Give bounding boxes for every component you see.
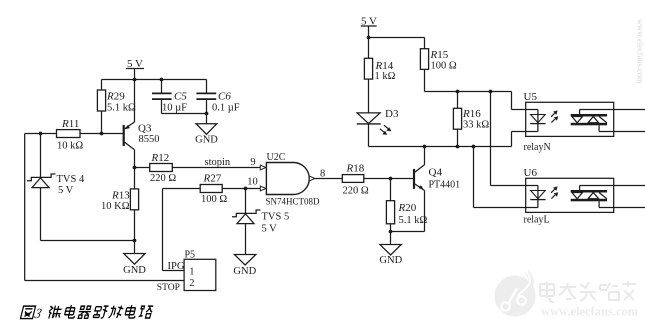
svg-text:10 KΩ: 10 KΩ (101, 201, 130, 212)
ground under C6 (196, 114, 217, 135)
label R16 value (462, 108, 489, 131)
svg-text:C6: C6 (218, 91, 231, 103)
svg-text:5.1 kΩ: 5.1 kΩ (107, 102, 136, 113)
junction node B / Q4 collector (423, 145, 427, 149)
svg-text:220 Ω: 220 Ω (343, 185, 369, 196)
label R20 value (398, 202, 428, 226)
wire node B rail (369, 146, 512, 148)
label R29 value (106, 91, 136, 114)
label R14 value (375, 60, 396, 82)
svg-text:R18: R18 (346, 162, 365, 174)
svg-text:9: 9 (250, 157, 255, 168)
svg-text:stopin: stopin (205, 157, 231, 168)
label Q4 PT4401 (429, 166, 461, 190)
wire Q3 base net (25, 133, 57, 135)
svg-text:R27: R27 (203, 173, 222, 185)
svg-text:33 kΩ: 33 kΩ (463, 120, 489, 131)
svg-text:GND: GND (379, 255, 402, 266)
svg-text:1: 1 (189, 266, 194, 277)
svg-text:C5: C5 (174, 91, 187, 103)
svg-text:GND: GND (123, 265, 146, 276)
svg-text:U6: U6 (524, 167, 538, 179)
svg-text:GND: GND (195, 134, 218, 145)
resistor R18 (315, 175, 414, 183)
svg-text:10 µF: 10 µF (162, 102, 187, 113)
svg-text:220 Ω: 220 Ω (150, 173, 176, 184)
svg-text:0.1 µF: 0.1 µF (212, 102, 240, 113)
svg-text:R29: R29 (106, 91, 125, 103)
svg-text:R16: R16 (462, 108, 481, 120)
svg-text:2: 2 (189, 278, 194, 289)
svg-text:STOP: STOP (157, 283, 180, 293)
svg-text:relayN: relayN (524, 142, 551, 153)
svg-text:1 kΩ: 1 kΩ (375, 71, 396, 82)
wire IPG column (163, 189, 185, 271)
resistor R15 (420, 38, 428, 92)
svg-text:www.elecfans.com: www.elecfans.com (636, 19, 645, 84)
junction 5V rail / Q3 emitter (133, 78, 137, 82)
resistor R14 (364, 38, 372, 113)
svg-text:www.elecfans.com: www.elecfans.com (541, 305, 639, 319)
svg-text:D3: D3 (385, 108, 399, 120)
ground under R20 (380, 245, 401, 256)
svg-text:100 Ω: 100 Ω (201, 194, 227, 205)
svg-text:R13: R13 (111, 189, 130, 201)
junction node B / R16 (456, 145, 460, 149)
junction R27 / TVS5 (244, 187, 248, 191)
svg-text:10: 10 (247, 176, 258, 187)
junction R29 / base net (100, 132, 104, 136)
svg-text:R12: R12 (151, 152, 170, 164)
junction Q3 collector / R12 / R13 (133, 166, 137, 170)
svg-text:Q4: Q4 (429, 166, 443, 178)
svg-text:5.1 kΩ: 5.1 kΩ (399, 215, 428, 226)
svg-text:5 V: 5 V (127, 58, 143, 70)
junction node A / R16 (456, 90, 460, 94)
svg-text:R20: R20 (398, 202, 417, 214)
svg-text:U5: U5 (524, 91, 538, 103)
label R15 value (430, 49, 457, 72)
resistor R13 (130, 168, 138, 254)
resistor R11 (57, 130, 124, 138)
label R27 value (201, 173, 227, 205)
svg-text:Q3: Q3 (138, 122, 152, 134)
power 5V rail left (102, 69, 207, 80)
watermark logo circle (495, 272, 536, 317)
label C5 value (162, 91, 187, 114)
svg-text:relayL: relayL (524, 214, 550, 225)
label R18 value (343, 162, 369, 196)
resistor R27 (163, 185, 261, 193)
svg-text:U2C: U2C (267, 152, 286, 163)
label R11 value (57, 118, 83, 151)
svg-text:5 V: 5 V (262, 224, 278, 235)
wire Q4 emitter bottom (391, 231, 425, 233)
label TVS4 (57, 174, 85, 196)
diode TVS4 (27, 134, 55, 241)
junction node A / U6 feed (489, 90, 493, 94)
junction R20 bottom / Q4 emitter (389, 230, 393, 234)
svg-text:IPG: IPG (168, 261, 185, 272)
svg-text:10 kΩ: 10 kΩ (57, 141, 83, 152)
optocoupler U5 (526, 102, 645, 136)
op-amp U2C AND gate (260, 163, 315, 195)
watermark brand text (540, 281, 639, 319)
svg-text:8550: 8550 (139, 134, 160, 145)
svg-text:R15: R15 (430, 49, 449, 61)
LED D3 (357, 113, 392, 147)
resistor R12 (135, 164, 261, 172)
optocoupler U6 (526, 178, 645, 212)
resistor R16 (453, 92, 461, 147)
transistor Q4 (414, 147, 425, 232)
junction 5V right / R14 (367, 36, 371, 40)
svg-text:5 V: 5 V (58, 185, 74, 196)
svg-text:R11: R11 (61, 118, 79, 130)
junction node B / U6 feed (472, 145, 476, 149)
connector P5 (184, 259, 216, 290)
svg-text:100 Ω: 100 Ω (431, 61, 457, 72)
svg-text:SN74HCT08D: SN74HCT08D (266, 196, 321, 206)
wire left stop column (24, 134, 26, 281)
diode TVS5 (232, 189, 260, 255)
label Q3 8550 (138, 122, 160, 145)
svg-text:5 V: 5 V (361, 16, 377, 28)
wire TVS4 to R13 gnd (41, 240, 135, 242)
wire U6 cathode feed (474, 147, 526, 208)
wire cap bottom rail (162, 113, 207, 115)
wire STOP line (25, 280, 184, 282)
svg-text:TVS 5: TVS 5 (262, 212, 290, 223)
junction 5V rail / C5 (160, 78, 164, 82)
capacitor C6 (196, 80, 216, 114)
ground under TVS5 (234, 255, 256, 266)
svg-text:TVS 4: TVS 4 (57, 174, 85, 185)
wire U5 anode feed (512, 92, 526, 110)
svg-text:GND: GND (233, 266, 256, 277)
ground under R13 (124, 254, 146, 265)
junction C6 bottom / GND (205, 112, 209, 116)
svg-text:PT4401: PT4401 (429, 179, 461, 190)
junction R18 / R20 / Q4 base (389, 177, 393, 181)
resistor R20 (386, 179, 394, 245)
transistor Q3 (124, 80, 135, 168)
junction TVS4 / base net (39, 132, 43, 136)
resistor R29 (97, 80, 105, 134)
capacitor C5 (152, 80, 172, 114)
wire U6 anode feed (491, 92, 526, 186)
label C6 value (212, 91, 240, 114)
label R13 value (101, 189, 130, 212)
label R12 value (150, 152, 176, 184)
svg-text:3: 3 (32, 306, 43, 322)
junction R13 bottom / TVS4 return (133, 239, 137, 243)
power 5V rail right (361, 26, 425, 38)
caption figure 3 chinese (20, 305, 154, 321)
label TVS5 (262, 212, 290, 235)
svg-text:P5: P5 (185, 249, 196, 260)
wire U5 cathode feed (512, 132, 526, 147)
wire node A rail (425, 91, 512, 93)
